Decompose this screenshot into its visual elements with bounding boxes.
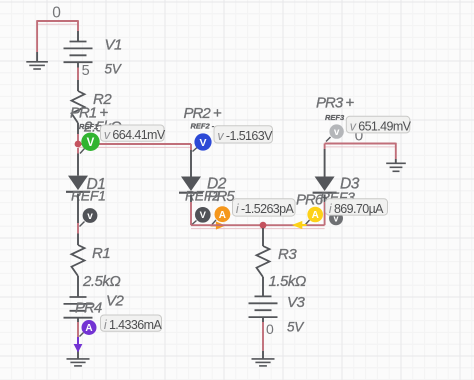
ground (net 0, right)	[386, 163, 406, 171]
probe PR3 (voltage, gray/unattached)	[326, 124, 344, 141]
svg-text:A: A	[85, 323, 92, 334]
wire: ground lead	[36, 52, 38, 61]
svg-text:0: 0	[266, 321, 274, 337]
svg-text:R3: R3	[278, 246, 297, 263]
svg-text:V: V	[199, 137, 206, 149]
svg-text:A: A	[312, 210, 319, 221]
svg-text:v: v	[334, 127, 340, 138]
svg-text:PR6: PR6	[296, 192, 324, 209]
wire: D3 to bottom node rail	[324, 194, 326, 225]
svg-text:V3: V3	[287, 294, 306, 311]
svg-text:i 1.4336mA: i 1.4336mA	[104, 318, 163, 332]
resistor R2	[72, 80, 85, 134]
svg-text:v 651.49mV: v 651.49mV	[350, 120, 412, 134]
ground (bottom middle, V3)	[252, 359, 275, 366]
wire: bottom node to R3	[262, 228, 264, 246]
svg-text:5V: 5V	[105, 62, 123, 77]
svg-text:PR5: PR5	[208, 188, 236, 205]
wire: V1 to R2	[77, 68, 79, 81]
wire: D1 to R1	[77, 194, 79, 246]
probe PR5 current arrow	[211, 221, 226, 229]
svg-text:2.5kΩ: 2.5kΩ	[82, 273, 120, 290]
svg-text:REF1: REF1	[71, 188, 106, 204]
svg-text:v 664.41mV: v 664.41mV	[104, 128, 166, 142]
wire ghosts (screenshot scaling echo)	[37, 24, 396, 228]
svg-text:A: A	[219, 210, 226, 221]
svg-text:REF2 -: REF2 -	[191, 122, 215, 131]
svg-text:v -1.5163V: v -1.5163V	[217, 129, 273, 143]
probe PR2 (voltage, blue)	[193, 133, 212, 151]
svg-text:0: 0	[52, 5, 61, 22]
probe PR4 current arrow	[74, 337, 83, 353]
wire: R2 to node A	[77, 134, 79, 144]
svg-text:REF3 -: REF3 -	[325, 113, 349, 122]
wire: node A corner down to D2	[190, 144, 192, 177]
wire: node A to D2 branch	[78, 143, 191, 145]
wire: top-left ground to V1	[37, 20, 78, 52]
svg-text:PR3 +: PR3 +	[316, 95, 354, 112]
probe PR6 (voltage, gray)	[329, 211, 343, 225]
wire: bottom node rail D2 to D3	[191, 224, 325, 226]
wire: D2 to bottom node	[190, 194, 192, 225]
ground (net 0, top left)	[26, 62, 48, 69]
probe (voltage, dark) at D1 cathode	[80, 208, 98, 226]
probe PR4 reading 1.4336mA	[101, 315, 163, 332]
diode D2	[179, 177, 203, 193]
probe PR2 reading -1.5163V	[214, 126, 273, 143]
probe PR3 reading 651.49mV	[346, 116, 411, 133]
wire: R1 to V2	[77, 276, 79, 297]
probe PR6 (current, yellow)	[306, 207, 324, 225]
voltage source V3	[249, 296, 278, 322]
svg-text:PR1 +: PR1 +	[70, 105, 108, 122]
svg-text:v: v	[87, 211, 93, 222]
probe PR1 (voltage, green)	[80, 133, 100, 154]
resistor R1	[72, 245, 85, 276]
svg-text:V: V	[87, 137, 95, 149]
wire: node A to D1	[77, 148, 79, 176]
junction node A	[75, 141, 82, 148]
svg-text:REF1 -: REF1 -	[79, 122, 103, 131]
probe PR5 (current, orange)	[212, 206, 230, 224]
svg-text:i -1.5263pA: i -1.5263pA	[236, 202, 295, 216]
wire: V3 to ground	[262, 322, 264, 359]
wire: V2 to ground	[77, 322, 79, 359]
svg-text:V: V	[200, 210, 207, 221]
svg-text:1.5kΩ: 1.5kΩ	[269, 273, 306, 290]
diode D3	[313, 177, 337, 193]
ground (bottom left, V2)	[67, 359, 90, 366]
svg-text:V2: V2	[106, 293, 125, 310]
resistor R3	[257, 246, 270, 296]
probe PR6 reading 869.70uA	[326, 199, 388, 216]
svg-text:PR4: PR4	[75, 300, 102, 317]
voltage source V2	[64, 297, 93, 322]
junction bottom node	[260, 222, 267, 229]
svg-text:R1: R1	[92, 245, 110, 262]
probe PR5 (voltage, dark)	[192, 207, 211, 225]
probe PR4 (current, purple)	[80, 320, 97, 337]
wire: D3 top corner to right ground	[325, 143, 396, 159]
svg-text:PR2 +: PR2 +	[184, 105, 222, 122]
svg-text:5V: 5V	[287, 320, 305, 335]
probe PR6 current arrow	[292, 221, 307, 229]
probe PR1 reading 664.41mV	[101, 125, 166, 142]
svg-text:5: 5	[82, 63, 90, 79]
wire: corner down to D3	[324, 144, 326, 177]
svg-text:V1: V1	[105, 37, 123, 54]
svg-text:i 869.70µA: i 869.70µA	[329, 202, 384, 216]
voltage source V1	[64, 31, 93, 68]
diode D1	[66, 176, 90, 192]
wire: right ground lead	[395, 159, 397, 163]
probe PR5 reading -1.5263pA	[233, 199, 296, 216]
